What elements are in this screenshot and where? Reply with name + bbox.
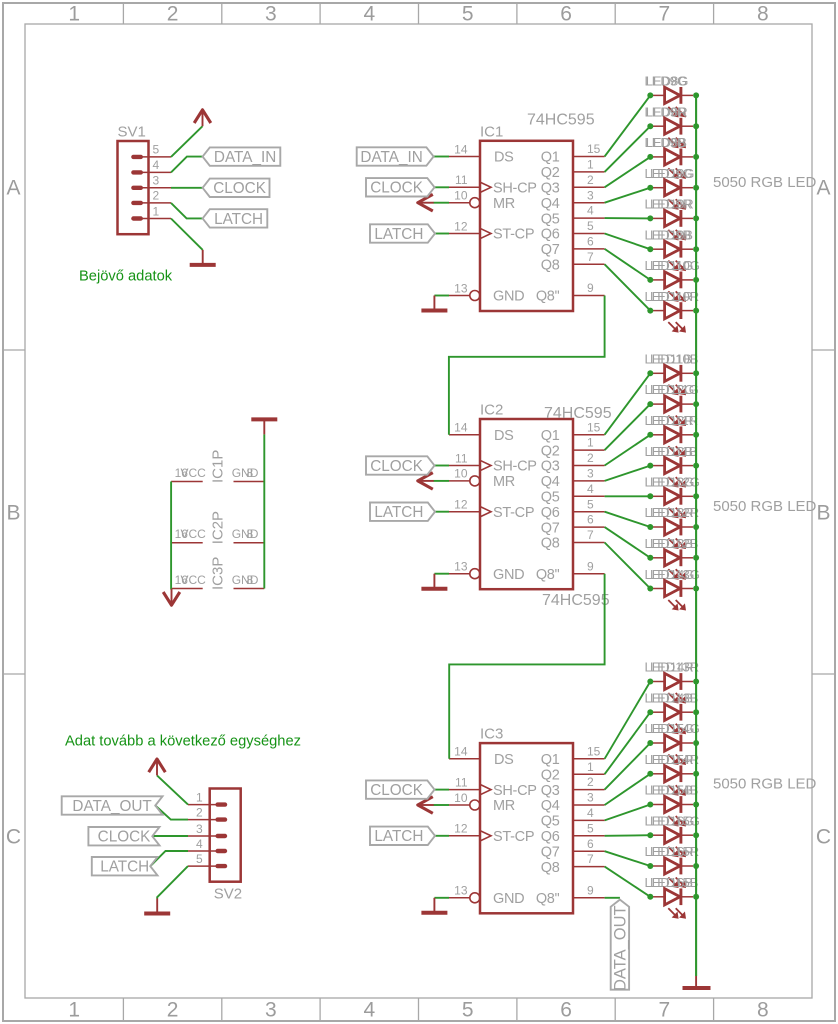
wire IC1 Q8 to LED anode bbox=[605, 264, 651, 310]
svg-text:7: 7 bbox=[587, 250, 594, 264]
wire IC3 Q8'' to DATA_OUT bbox=[605, 897, 620, 899]
junction node LED10G anode bbox=[647, 185, 653, 191]
svg-text:3: 3 bbox=[196, 822, 203, 836]
svg-text:11: 11 bbox=[455, 775, 468, 789]
svg-text:12: 12 bbox=[454, 498, 468, 512]
wire IC2 Q4 to LED anode bbox=[605, 466, 651, 481]
svg-text:GND: GND bbox=[493, 567, 524, 583]
junction node LED13B cathode on bus bbox=[693, 555, 699, 561]
LED name labels LED13R LED12R bbox=[645, 505, 700, 520]
svg-text:Q4: Q4 bbox=[541, 196, 560, 212]
junction node LED15B cathode on bus bbox=[693, 802, 699, 808]
LED name labels LED10G LED9G bbox=[645, 166, 695, 181]
svg-text:LED10G: LED10G bbox=[650, 258, 700, 273]
svg-text:B: B bbox=[6, 502, 20, 525]
IC3 pin Q6 (5) bbox=[541, 821, 605, 845]
svg-text:5: 5 bbox=[587, 497, 594, 511]
junction node LED14G anode bbox=[647, 586, 653, 592]
power pins IC1P VCC (16) bbox=[171, 466, 206, 482]
IC2 pin Q5 (4) bbox=[541, 482, 605, 506]
svg-text:LATCH: LATCH bbox=[374, 828, 423, 845]
junction node LED10R cathode on bus bbox=[693, 215, 699, 221]
LED name labels LED15B LED14B bbox=[645, 783, 699, 798]
wire IC2 Q8'' to IC3 DS (cascade) bbox=[449, 574, 604, 759]
IC3 pin SH-CP (11) with clock symbol bbox=[449, 775, 537, 798]
svg-text:8: 8 bbox=[757, 999, 769, 1022]
junction node LED16G cathode on bus bbox=[693, 832, 699, 838]
svg-text:CLOCK: CLOCK bbox=[370, 458, 423, 475]
svg-text:8: 8 bbox=[247, 466, 254, 480]
svg-text:3: 3 bbox=[587, 188, 594, 202]
junction node LED15B anode bbox=[647, 802, 653, 808]
junction node LED14R anode bbox=[647, 679, 653, 685]
LED diode LED9G / LED8G bbox=[653, 87, 693, 117]
svg-text:LED9R: LED9R bbox=[650, 197, 692, 212]
IC2 pin DS (14) bbox=[449, 421, 514, 444]
svg-text:Q8: Q8 bbox=[541, 536, 560, 552]
svg-text:4: 4 bbox=[153, 158, 160, 172]
net label CLOCK (IC3) bbox=[366, 780, 435, 799]
wire IC1 Q2 to LED anode bbox=[605, 126, 651, 172]
svg-text:ST-CP: ST-CP bbox=[493, 505, 534, 521]
LED diode LED10B / LED9B bbox=[653, 241, 693, 271]
svg-text:2: 2 bbox=[153, 189, 160, 203]
connector SV2 bbox=[188, 789, 241, 882]
LED diode LED11B / LED10B bbox=[653, 365, 693, 395]
wire SV1 pin4 to DATA_IN bbox=[171, 157, 203, 173]
junction node LED15G anode bbox=[647, 740, 653, 746]
svg-text:DATA_OUT: DATA_OUT bbox=[612, 905, 630, 991]
ground symbol (cathode bus) bbox=[683, 976, 711, 988]
svg-text:14: 14 bbox=[454, 142, 468, 156]
svg-text:1: 1 bbox=[587, 436, 594, 450]
power VCC arrow left (IC2 MR) bbox=[418, 473, 434, 490]
svg-text:5: 5 bbox=[587, 821, 594, 835]
net label DATA_OUT (vertical, IC3) bbox=[611, 900, 630, 991]
svg-text:LED13G: LED13G bbox=[650, 567, 700, 582]
IC2 pin ST-CP (12) with clock symbol bbox=[449, 498, 534, 521]
junction node LED14B anode bbox=[647, 709, 653, 715]
svg-text:DATA_IN: DATA_IN bbox=[214, 149, 276, 166]
svg-text:7: 7 bbox=[587, 528, 594, 542]
power VCC arrow left (IC1 MR) bbox=[418, 194, 434, 211]
net label CLOCK (IC2) bbox=[366, 456, 435, 475]
junction node LED15R anode bbox=[647, 771, 653, 777]
power pins IC2P VCC (16) bbox=[171, 527, 206, 543]
wire GND pin to ground (IC1) bbox=[434, 295, 449, 297]
LED diode LED15G / LED14G bbox=[653, 735, 693, 765]
junction node LED10G cathode on bus bbox=[693, 185, 699, 191]
wire SV1 pin5 to VCC bbox=[171, 126, 203, 157]
IC3 pin Q1 (15) bbox=[541, 744, 605, 768]
svg-text:GND: GND bbox=[232, 573, 259, 587]
IC2 pin Q8 (7) bbox=[541, 528, 605, 552]
wire IC2 Q7 to LED anode bbox=[605, 527, 651, 558]
junction node LED15R cathode on bus bbox=[693, 771, 699, 777]
svg-text:Q4: Q4 bbox=[541, 798, 560, 814]
svg-text:2: 2 bbox=[196, 805, 203, 819]
svg-text:9: 9 bbox=[587, 559, 594, 573]
junction node LED14G cathode on bus bbox=[693, 586, 699, 592]
junction node LED9B anode bbox=[647, 154, 653, 160]
svg-text:LED10B: LED10B bbox=[650, 352, 698, 367]
IC2 pin SH-CP (11) with clock symbol bbox=[449, 451, 537, 474]
IC1 pin Q4 (3) bbox=[541, 188, 605, 212]
LED name labels LED9G LED8G bbox=[645, 74, 689, 89]
svg-text:74HC595: 74HC595 bbox=[527, 111, 595, 128]
svg-text:2: 2 bbox=[587, 775, 594, 789]
LED diode LED11R / LED10R bbox=[653, 302, 693, 332]
svg-text:Q3: Q3 bbox=[541, 459, 560, 475]
wire MR to VCC (IC3) bbox=[434, 804, 450, 806]
svg-text:5: 5 bbox=[196, 852, 203, 866]
LED name labels LED15G LED14G bbox=[645, 721, 700, 736]
svg-text:ST-CP: ST-CP bbox=[493, 227, 534, 243]
junction node LED12B cathode on bus bbox=[693, 463, 699, 469]
svg-text:LED10R: LED10R bbox=[650, 289, 699, 304]
frame row letters right bbox=[816, 177, 831, 849]
ground symbol (IC2) bbox=[421, 574, 447, 589]
LED diode LED16G / LED15G bbox=[653, 827, 693, 857]
wire cathode bus (vertical) bbox=[695, 95, 697, 976]
power VCC arrow down (power block) bbox=[163, 589, 180, 605]
svg-text:74HC595: 74HC595 bbox=[542, 592, 610, 609]
svg-text:Q4: Q4 bbox=[541, 474, 560, 490]
frame column numbers bottom bbox=[68, 999, 768, 1022]
IC1 pin Q6 (5) bbox=[541, 219, 605, 243]
IC2 pin Q3 (2) bbox=[541, 451, 605, 475]
wire IC2 Q6 to LED anode bbox=[605, 512, 651, 527]
power pins IC3P VCC (16) bbox=[171, 573, 206, 589]
frame row tick lines right bbox=[812, 350, 835, 674]
svg-text:6: 6 bbox=[560, 3, 572, 26]
svg-text:Q1: Q1 bbox=[541, 428, 560, 444]
svg-text:5: 5 bbox=[462, 999, 474, 1022]
svg-text:5050 RGB LED: 5050 RGB LED bbox=[713, 775, 817, 792]
ground symbol (SV1) bbox=[190, 250, 216, 265]
svg-text:IC2P: IC2P bbox=[210, 511, 227, 544]
wire LATCH to IC2 ST-CP bbox=[435, 511, 449, 513]
svg-text:2: 2 bbox=[587, 173, 594, 187]
junction node LED14R cathode on bus bbox=[693, 679, 699, 685]
svg-text:VCC: VCC bbox=[181, 466, 207, 480]
svg-text:6: 6 bbox=[587, 235, 594, 249]
svg-text:3: 3 bbox=[587, 791, 594, 805]
SV2 pin numbers 1 2 3 4 5 bbox=[196, 790, 203, 866]
svg-text:2: 2 bbox=[167, 3, 179, 26]
frame column tick lines bottom bbox=[123, 998, 713, 1021]
connector SV1 bbox=[118, 141, 172, 234]
junction node LED9B cathode on bus bbox=[693, 154, 699, 160]
wire IC3 Q4 to LED anode bbox=[605, 774, 651, 805]
svg-text:SH-CP: SH-CP bbox=[493, 459, 537, 475]
svg-text:Q2: Q2 bbox=[541, 165, 560, 181]
svg-text:LATCH: LATCH bbox=[374, 504, 423, 521]
junction node LED11B anode bbox=[647, 370, 653, 376]
svg-text:LED13B: LED13B bbox=[650, 691, 698, 706]
svg-text:LED14G: LED14G bbox=[650, 721, 700, 736]
svg-text:LATCH: LATCH bbox=[214, 211, 263, 228]
junction node LED11B cathode on bus bbox=[693, 370, 699, 376]
svg-text:LED8G: LED8G bbox=[646, 74, 689, 89]
svg-text:Bejövő adatok: Bejövő adatok bbox=[79, 269, 173, 285]
svg-text:Q1: Q1 bbox=[541, 150, 560, 166]
LED name labels LED15R LED14R bbox=[645, 752, 700, 767]
wire IC1 Q6 to LED anode bbox=[605, 234, 651, 250]
ground symbol (IC1) bbox=[421, 296, 447, 311]
svg-text:15: 15 bbox=[587, 744, 601, 758]
IC1 pin ST-CP (12) with clock symbol bbox=[449, 219, 534, 242]
svg-text:15: 15 bbox=[587, 420, 601, 434]
svg-text:Q8'': Q8'' bbox=[536, 891, 560, 907]
power VCC arrow left (IC3 MR) bbox=[418, 797, 434, 814]
svg-text:CLOCK: CLOCK bbox=[98, 829, 151, 846]
LED name labels LED12R LED11R bbox=[645, 413, 699, 428]
svg-text:5050 RGB LED: 5050 RGB LED bbox=[713, 498, 817, 515]
IC2 pin GND (13) inverted bbox=[449, 560, 524, 583]
svg-text:2: 2 bbox=[587, 451, 594, 465]
LED diode LED14B / LED13B bbox=[653, 704, 693, 734]
svg-text:CLOCK: CLOCK bbox=[370, 782, 423, 799]
LED diode LED10R / LED9R bbox=[653, 210, 693, 240]
wire IC2 Q1 to LED anode bbox=[605, 373, 651, 434]
svg-text:SV1: SV1 bbox=[118, 124, 146, 141]
IC1 pin Q7 (6) bbox=[541, 235, 605, 259]
IC2 pin Q4 (3) bbox=[541, 467, 605, 491]
IC3 pin Q8 (7) bbox=[541, 852, 605, 876]
IC3 pin DS (14) bbox=[449, 745, 514, 768]
junction node LED9G anode bbox=[647, 92, 653, 98]
wire SV1 pin1 to GND bbox=[171, 219, 203, 250]
svg-text:DATA_IN: DATA_IN bbox=[360, 149, 422, 166]
net label CLOCK (SV2) bbox=[88, 827, 159, 846]
LED diode LED12B / LED11B bbox=[653, 457, 693, 487]
frame row letters left bbox=[6, 177, 21, 849]
svg-text:13: 13 bbox=[454, 884, 468, 898]
wire IC3 Q2 to LED anode bbox=[605, 712, 651, 774]
net label LATCH (SV1) bbox=[203, 209, 268, 228]
svg-text:IC1P: IC1P bbox=[210, 450, 227, 483]
svg-text:VCC: VCC bbox=[181, 527, 207, 541]
svg-text:5: 5 bbox=[587, 219, 594, 233]
junction node LED16R anode bbox=[647, 863, 653, 869]
svg-text:A: A bbox=[6, 177, 20, 200]
svg-text:Q7: Q7 bbox=[541, 242, 560, 258]
svg-text:Q6: Q6 bbox=[541, 829, 560, 845]
svg-text:Q2: Q2 bbox=[541, 767, 560, 783]
svg-text:4: 4 bbox=[587, 806, 594, 820]
wire IC1 Q8'' to IC2 DS (cascade) bbox=[449, 296, 605, 435]
IC3 pin Q8'' (9) bbox=[536, 883, 605, 907]
LED name labels LED16R LED15R bbox=[645, 844, 700, 859]
svg-text:LED11R: LED11R bbox=[650, 413, 698, 428]
svg-text:LED12G: LED12G bbox=[650, 475, 700, 490]
junction node LED13R cathode on bus bbox=[693, 524, 699, 530]
svg-text:MR: MR bbox=[493, 798, 515, 814]
junction node LED16R cathode on bus bbox=[693, 863, 699, 869]
IC3 pin Q3 (2) bbox=[541, 775, 605, 799]
net label LATCH (IC2) bbox=[370, 503, 435, 522]
junction node LED13G cathode on bus bbox=[693, 493, 699, 499]
IC1 pin MR (10) inverted, tied to VCC bbox=[449, 189, 515, 212]
svg-text:7: 7 bbox=[659, 999, 671, 1022]
svg-text:6: 6 bbox=[560, 999, 572, 1022]
svg-text:Q6: Q6 bbox=[541, 227, 560, 243]
IC3 pin Q5 (4) bbox=[541, 806, 605, 830]
LED name labels LED11R LED10R bbox=[645, 289, 700, 304]
svg-text:12: 12 bbox=[454, 219, 468, 233]
junction node LED12R cathode on bus bbox=[693, 432, 699, 438]
LED diode LED9R / LED8R bbox=[653, 118, 693, 148]
svg-text:4: 4 bbox=[587, 204, 594, 218]
svg-text:7: 7 bbox=[659, 3, 671, 26]
svg-text:11: 11 bbox=[455, 173, 468, 187]
LED name labels LED9R LED8R bbox=[645, 104, 688, 119]
IC3 pin GND (13) inverted bbox=[449, 884, 524, 907]
wire MR to VCC (IC2) bbox=[434, 480, 450, 482]
IC1 pin SH-CP (11) with clock symbol bbox=[449, 173, 537, 196]
svg-text:1: 1 bbox=[68, 3, 80, 26]
LED diode LED9B / LED8B bbox=[653, 149, 693, 179]
svg-text:Q2: Q2 bbox=[541, 443, 560, 459]
power VCC arrow (SV2) bbox=[149, 759, 166, 775]
svg-text:SH-CP: SH-CP bbox=[493, 783, 537, 799]
IC3 pin Q7 (6) bbox=[541, 837, 605, 861]
svg-text:14: 14 bbox=[454, 421, 468, 435]
wire GND pin to ground (IC2) bbox=[434, 573, 449, 575]
svg-text:ST-CP: ST-CP bbox=[493, 829, 534, 845]
power pins IC2P GND (8) bbox=[232, 527, 265, 543]
svg-text:8: 8 bbox=[247, 527, 254, 541]
frame row tick lines left bbox=[3, 350, 25, 674]
wire GND rail (power block) bbox=[263, 434, 265, 588]
wire CLOCK to IC2 SH-CP bbox=[435, 465, 450, 467]
svg-text:Q5: Q5 bbox=[541, 211, 560, 227]
svg-text:LED8B: LED8B bbox=[646, 135, 687, 150]
wire LATCH to IC1 ST-CP bbox=[435, 233, 449, 235]
wire IC1 Q3 to LED anode bbox=[605, 157, 651, 187]
junction node LED13R anode bbox=[647, 524, 653, 530]
svg-text:3: 3 bbox=[153, 174, 160, 188]
junction node LED13G anode bbox=[647, 493, 653, 499]
junction node LED16B cathode on bus bbox=[693, 894, 699, 900]
svg-text:LED8R: LED8R bbox=[646, 104, 688, 119]
LED name labels LED14B LED13B bbox=[645, 691, 699, 706]
svg-text:Q3: Q3 bbox=[541, 783, 560, 799]
svg-text:10: 10 bbox=[454, 467, 468, 481]
svg-text:Q1: Q1 bbox=[541, 752, 560, 768]
svg-text:IC1: IC1 bbox=[480, 123, 503, 140]
svg-text:12: 12 bbox=[454, 822, 468, 836]
svg-text:IC3P: IC3P bbox=[210, 557, 227, 590]
IC3 pin Q2 (1) bbox=[541, 760, 605, 784]
svg-text:C: C bbox=[816, 826, 831, 849]
LED name labels LED16B LED15B bbox=[645, 875, 699, 890]
svg-text:8: 8 bbox=[757, 3, 769, 26]
LED name labels LED12B LED11B bbox=[645, 444, 698, 459]
ground symbol (IC3) bbox=[421, 898, 447, 913]
svg-text:GND: GND bbox=[232, 466, 259, 480]
svg-text:15: 15 bbox=[587, 142, 601, 156]
svg-text:Adat tovább a következő egység: Adat tovább a következő egységhez bbox=[65, 734, 301, 750]
svg-text:LATCH: LATCH bbox=[100, 859, 149, 876]
svg-text:Q3: Q3 bbox=[541, 181, 560, 197]
LED name labels LED10R LED9R bbox=[645, 197, 694, 212]
SV1 pin numbers 5 4 3 2 1 bbox=[153, 143, 160, 219]
svg-text:MR: MR bbox=[493, 474, 515, 490]
IC2 pin Q2 (1) bbox=[541, 436, 605, 460]
svg-text:11: 11 bbox=[455, 451, 468, 465]
svg-text:13: 13 bbox=[454, 281, 468, 295]
svg-text:Q7: Q7 bbox=[541, 844, 560, 860]
IC1 pin Q2 (1) bbox=[541, 158, 605, 182]
wire IC3 Q1 to LED anode bbox=[605, 682, 651, 759]
LED name labels LED14G LED13G bbox=[645, 567, 700, 582]
junction node LED12B anode bbox=[647, 463, 653, 469]
net label CLOCK (IC1) bbox=[366, 178, 435, 197]
LED name labels LED16G LED15G bbox=[645, 814, 700, 829]
junction node LED10B anode bbox=[647, 246, 653, 252]
svg-text:LATCH: LATCH bbox=[374, 226, 423, 243]
svg-text:IC2: IC2 bbox=[480, 402, 503, 419]
wire IC3 Q7 to LED anode bbox=[605, 851, 651, 866]
svg-text:DS: DS bbox=[494, 428, 514, 444]
svg-text:3: 3 bbox=[265, 3, 277, 26]
junction node LED16G anode bbox=[647, 832, 653, 838]
svg-text:6: 6 bbox=[587, 837, 594, 851]
junction node LED13B anode bbox=[647, 555, 653, 561]
IC2 pin Q7 (6) bbox=[541, 513, 605, 537]
svg-text:8: 8 bbox=[247, 573, 254, 587]
svg-text:1: 1 bbox=[587, 158, 594, 172]
svg-text:DS: DS bbox=[494, 752, 514, 768]
LED diode LED14R / LED13R bbox=[653, 673, 693, 703]
IC1 pin Q8'' (9) bbox=[536, 281, 605, 305]
shift register IC3 74HC595 body bbox=[480, 743, 573, 913]
svg-text:Q5: Q5 bbox=[541, 814, 560, 830]
junction node LED11R anode bbox=[647, 308, 653, 314]
ground symbol inverted (power block) bbox=[251, 419, 277, 434]
svg-text:SH-CP: SH-CP bbox=[493, 181, 537, 197]
svg-text:5: 5 bbox=[153, 143, 160, 157]
svg-text:SV2: SV2 bbox=[214, 886, 242, 903]
wire LATCH to SV2 pin4 bbox=[150, 851, 188, 866]
wire IC1 Q7 to LED anode bbox=[605, 249, 651, 280]
svg-text:1: 1 bbox=[587, 760, 594, 774]
LED diode LED11G / LED10G bbox=[653, 272, 693, 302]
LED diode LED13G / LED12G bbox=[653, 488, 693, 518]
svg-text:LED13R: LED13R bbox=[650, 660, 699, 675]
svg-text:IC3: IC3 bbox=[480, 726, 503, 743]
svg-text:LED15R: LED15R bbox=[650, 844, 699, 859]
svg-text:Q8'': Q8'' bbox=[536, 567, 560, 583]
wire IC2 Q8 to LED anode bbox=[605, 543, 651, 589]
svg-text:CLOCK: CLOCK bbox=[370, 180, 423, 197]
junction node LED14B cathode on bus bbox=[693, 709, 699, 715]
junction node LED15G cathode on bus bbox=[693, 740, 699, 746]
wire IC1 Q5 to LED anode bbox=[605, 217, 651, 219]
svg-text:4: 4 bbox=[363, 3, 375, 26]
svg-text:LED15G: LED15G bbox=[650, 814, 700, 829]
svg-text:9: 9 bbox=[587, 281, 594, 295]
LED name labels LED12G LED11G bbox=[645, 382, 699, 397]
wire IC1 Q1 to LED anode bbox=[605, 95, 651, 156]
IC2 pin MR (10) inverted, tied to VCC bbox=[449, 467, 515, 490]
LED diode LED16R / LED15R bbox=[653, 858, 693, 888]
LED name labels LED10B LED9B bbox=[645, 227, 693, 242]
IC1 pin Q5 (4) bbox=[541, 204, 605, 228]
svg-text:CLOCK: CLOCK bbox=[213, 180, 266, 197]
